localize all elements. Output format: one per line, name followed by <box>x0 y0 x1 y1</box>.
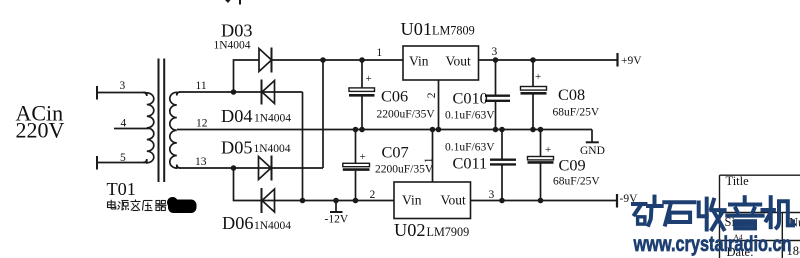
terminal +9V <box>616 53 618 67</box>
svg-text:3: 3 <box>120 80 126 92</box>
wire positive connector D05 up <box>322 60 324 168</box>
node C09 bottom <box>538 198 544 204</box>
svg-text:2: 2 <box>370 189 376 201</box>
char 石 <box>664 202 694 224</box>
wire pin4 <box>114 128 149 130</box>
node C06 bottom <box>359 127 365 133</box>
svg-text:Vin: Vin <box>402 193 422 208</box>
svg-text:1N4004: 1N4004 <box>254 113 291 125</box>
svg-text:D03: D03 <box>221 21 252 41</box>
svg-text:12: 12 <box>196 118 208 130</box>
transformer T01 primary winding <box>143 93 154 163</box>
svg-text:Vout: Vout <box>441 193 467 208</box>
wire D05 row <box>234 167 324 169</box>
component designator labels <box>107 19 586 240</box>
svg-text:LM7909: LM7909 <box>427 225 470 239</box>
svg-text:+: + <box>545 144 551 156</box>
svg-text:0.1uF/63V: 0.1uF/63V <box>445 109 495 121</box>
terminal ACin top <box>96 86 98 100</box>
svg-text:3: 3 <box>492 46 498 58</box>
capacitor C08 <box>521 60 547 130</box>
wire D03 to U01 Vin <box>272 59 404 61</box>
svg-text:Title: Title <box>726 174 750 188</box>
svg-text:U01: U01 <box>401 19 432 39</box>
pin number labels <box>120 46 498 201</box>
svg-text:D06: D06 <box>222 213 253 233</box>
wire U01 pin2 to ground <box>438 80 440 130</box>
wire pin13 node down to D06 row <box>234 168 262 201</box>
wire riser pin11 to D03 <box>234 60 260 92</box>
char 收 <box>699 199 725 230</box>
node U01 pin2 ground <box>436 127 442 133</box>
svg-text:C08: C08 <box>558 85 585 104</box>
svg-text:4: 4 <box>121 118 127 130</box>
svg-text:220V: 220V <box>16 118 65 143</box>
diode D05 <box>259 156 272 181</box>
变 <box>131 200 141 211</box>
svg-text:T01: T01 <box>107 179 136 199</box>
text ACin 220V <box>16 101 65 143</box>
wire U02 pin1 to ground <box>432 130 434 183</box>
svg-text:1N4004: 1N4004 <box>254 220 291 232</box>
svg-text:U02: U02 <box>394 220 425 240</box>
wire ACin pin5 <box>97 162 146 164</box>
svg-text:1: 1 <box>423 157 435 163</box>
node C07 top <box>353 127 359 133</box>
电 <box>108 200 116 209</box>
svg-text:C06: C06 <box>381 86 408 105</box>
transformer core <box>158 59 160 183</box>
node C08 top <box>530 57 536 63</box>
svg-text:2: 2 <box>426 92 438 98</box>
svg-text:C07: C07 <box>382 142 409 161</box>
node C07 bottom <box>353 198 359 204</box>
svg-text:11: 11 <box>196 80 207 92</box>
svg-text:www.crystalradio.cn: www.crystalradio.cn <box>633 233 792 256</box>
capacitor C06 <box>349 60 375 130</box>
svg-text:68uF/25V: 68uF/25V <box>553 107 600 119</box>
wire bottom rail D06 to U02 <box>262 200 395 202</box>
svg-text:D04: D04 <box>221 106 252 126</box>
wire U01 Vout to +9V <box>479 59 618 61</box>
title block row line 2 <box>720 212 800 214</box>
node C011 bottom <box>499 198 505 204</box>
器 <box>155 201 167 211</box>
blob redaction <box>167 197 197 213</box>
svg-text:68uF/25V: 68uF/25V <box>553 176 600 188</box>
node C010 bottom <box>493 127 499 133</box>
char 矿 <box>633 197 662 225</box>
svg-text:3: 3 <box>489 189 495 201</box>
node pin11 junction <box>231 89 237 95</box>
wire D04 row <box>234 91 303 93</box>
svg-text:5: 5 <box>120 152 126 164</box>
node C09 top <box>538 127 544 133</box>
svg-text:+: + <box>535 71 541 83</box>
svg-text:Vin: Vin <box>409 54 429 69</box>
svg-text:2200uF/35V: 2200uF/35V <box>375 164 434 176</box>
label 电源变压器 drawn strokes <box>108 200 167 211</box>
title block column divider <box>781 213 783 258</box>
char 音 <box>727 197 762 228</box>
diode D03 <box>259 48 272 73</box>
node positive connector top <box>320 57 326 63</box>
svg-text:1N4004: 1N4004 <box>214 40 251 52</box>
svg-text:2200uF/35V: 2200uF/35V <box>377 109 436 121</box>
IC pin texts <box>402 54 471 208</box>
svg-text:+: + <box>366 73 372 85</box>
压 <box>143 201 153 211</box>
svg-text:+9V: +9V <box>621 55 642 67</box>
svg-text:LM7809: LM7809 <box>432 24 475 38</box>
node C08 bottom <box>530 127 536 133</box>
node pin13 junction <box>231 165 237 171</box>
char 机 <box>763 197 794 228</box>
title block row line 3 <box>720 240 800 242</box>
svg-text:GND: GND <box>580 145 605 157</box>
node C011 top <box>499 127 505 133</box>
svg-text:1N4004: 1N4004 <box>254 143 291 155</box>
capacitor C09 <box>528 130 554 201</box>
node D04 connector bottom <box>300 198 306 204</box>
partial diode top edge <box>225 0 240 5</box>
svg-text:D05: D05 <box>221 138 252 158</box>
wire U02 Vout to -9V <box>471 200 618 202</box>
svg-text:+: + <box>360 151 366 163</box>
svg-text:C011: C011 <box>453 154 488 173</box>
diode D04 <box>262 80 275 105</box>
wire pin13 <box>179 167 234 169</box>
node -12V tap <box>333 198 339 204</box>
wire pin12 to ground rail <box>177 129 592 131</box>
title block <box>720 175 800 258</box>
IC U01 box <box>403 46 479 80</box>
plus sign C06 <box>360 71 552 163</box>
terminal ACin bottom <box>96 156 98 170</box>
title block left edge <box>719 175 721 258</box>
capacitor C010 <box>485 60 510 130</box>
svg-text:1: 1 <box>377 47 383 59</box>
svg-text:C09: C09 <box>559 156 586 175</box>
svg-text:0.1uF/63V: 0.1uF/63V <box>445 141 495 153</box>
node C010 top <box>493 57 499 63</box>
源 <box>118 201 129 211</box>
transformer T01 secondary winding <box>170 92 181 168</box>
IC U02 box <box>394 182 471 219</box>
terminal -9V <box>616 194 618 208</box>
wire ACin pin3 <box>97 92 146 94</box>
svg-text:C010: C010 <box>453 88 488 107</box>
node U02 pin1 ground <box>430 127 436 133</box>
watermark 矿石收音机 <box>633 197 793 230</box>
power bar -12V <box>330 201 343 213</box>
capacitor C011 <box>490 130 516 201</box>
svg-text:13: 13 <box>195 156 207 168</box>
svg-text:-12V: -12V <box>325 214 349 226</box>
wire negative connector D04 down <box>302 92 304 201</box>
capacitor C07 <box>343 130 370 201</box>
ground symbol GND <box>586 130 599 143</box>
wire pin11 <box>179 91 234 93</box>
diode D06 <box>262 188 275 213</box>
title block top edge <box>720 174 800 176</box>
svg-text:Vout: Vout <box>446 54 472 69</box>
node C06 top <box>359 57 365 63</box>
